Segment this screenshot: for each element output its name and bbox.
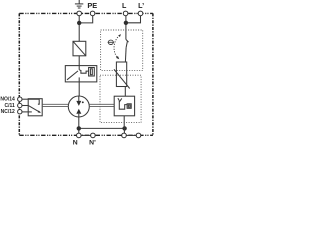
earth symbol bbox=[75, 0, 83, 8]
terminal circle NC/12 bbox=[18, 110, 22, 114]
svg-text:C/11: C/11 bbox=[5, 103, 16, 109]
terminal circle C/11 bbox=[18, 103, 22, 107]
node bottom-left junction bbox=[77, 126, 81, 130]
inner module dotted box top bbox=[101, 30, 143, 70]
svg-text:N’: N’ bbox=[89, 139, 96, 146]
terminal circle out 2 bbox=[136, 133, 141, 138]
svg-text:L’: L’ bbox=[138, 1, 144, 10]
monitor disconnector box (right) bbox=[114, 96, 134, 116]
mechanical link contact to GDT (double line) bbox=[42, 104, 68, 106]
isolating spark gap (square with diagonal) bbox=[73, 41, 86, 56]
wire junction to terminal bbox=[123, 128, 125, 133]
changeover blade arrowhead bbox=[38, 111, 41, 113]
wire earth column down bbox=[78, 16, 80, 42]
wire varistor to monitor box bbox=[124, 87, 126, 97]
wire C to contact box bbox=[22, 105, 28, 107]
label PE bbox=[87, 1, 97, 10]
theta temperature symbol bbox=[108, 40, 114, 44]
node bottom-right junction bbox=[122, 126, 126, 130]
terminal circle earth bbox=[77, 11, 82, 16]
terminal circle L' bbox=[138, 11, 143, 16]
wire disconnector to gas discharge tube bbox=[78, 82, 80, 96]
node junction earth/PE bbox=[77, 21, 81, 25]
wire N to N' on border bbox=[79, 134, 93, 136]
label N bbox=[73, 139, 78, 146]
label C/11 bbox=[5, 103, 16, 109]
wire GDT down to N terminal bbox=[78, 117, 80, 133]
GDT gas dot bbox=[82, 101, 84, 103]
N bus wire bbox=[79, 127, 125, 129]
svg-text:L: L bbox=[122, 1, 127, 10]
wire between unlabeled terminals bbox=[124, 134, 139, 136]
varistor RV bbox=[114, 62, 130, 89]
node junction L/L' bbox=[124, 21, 128, 25]
device boundary (dash-dot-dot frame) bbox=[19, 13, 153, 135]
GDT top electrode arrow bbox=[78, 96, 80, 101]
terminal circle PE bbox=[90, 11, 95, 16]
disconnector with thermal fuse box (left) bbox=[65, 66, 97, 82]
label L bbox=[122, 1, 127, 10]
terminal circle NO/14 bbox=[18, 97, 22, 101]
terminal circle N' bbox=[91, 133, 96, 138]
thermal disconnect switch (right column) bbox=[125, 39, 128, 62]
changeover signalling contact box bbox=[28, 99, 42, 116]
wire NC to contact box bbox=[22, 111, 28, 113]
GDT bottom electrode arrow bbox=[78, 114, 80, 117]
svg-text:N: N bbox=[73, 139, 78, 146]
thermal actuation dashed arc bbox=[114, 36, 119, 57]
label NC/12 bbox=[1, 109, 15, 115]
terminal circle out 1 bbox=[122, 133, 127, 138]
arc arrowhead top bbox=[118, 34, 121, 37]
terminal circle L bbox=[123, 11, 128, 16]
wire NO to contact box bbox=[22, 98, 28, 100]
wire spark gap to disconnector box bbox=[78, 56, 80, 66]
wire L' drop to junction bbox=[126, 16, 141, 23]
wire monitor box to bottom junction bbox=[123, 116, 125, 129]
wire L column down to contact bbox=[125, 16, 127, 40]
terminal circle N bbox=[77, 133, 82, 138]
wire PE drop to junction bbox=[79, 16, 93, 23]
inner module dotted box bottom bbox=[100, 75, 141, 122]
label L' bbox=[138, 1, 144, 10]
mechanical link GDT to monitor box (double line) bbox=[89, 104, 114, 106]
arc arrowhead bottom bbox=[116, 56, 119, 59]
svg-text:NO/14: NO/14 bbox=[0, 97, 15, 103]
label NO/14 bbox=[0, 97, 15, 103]
gas discharge tube (spark gap) circle bbox=[68, 96, 89, 117]
svg-text:PE: PE bbox=[87, 1, 97, 10]
label N' bbox=[89, 139, 96, 146]
svg-text:NC/12: NC/12 bbox=[1, 109, 15, 115]
